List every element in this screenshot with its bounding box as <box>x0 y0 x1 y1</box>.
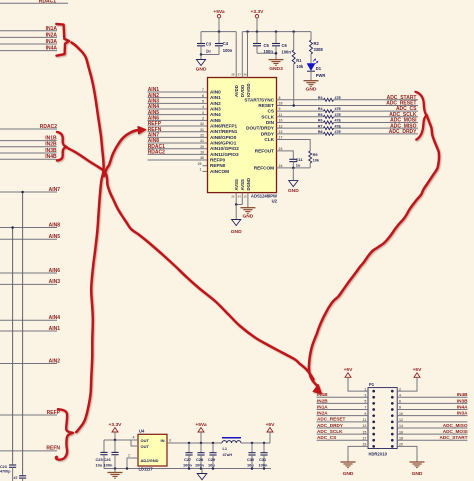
svg-text:3: 3 <box>202 111 204 115</box>
vertical wire bus 1 <box>22 192 24 474</box>
P1 pin dots <box>372 390 375 393</box>
wire P1 left row 5 <box>317 415 369 417</box>
wire L1 right rail <box>241 442 270 444</box>
svg-text:AIN5: AIN5 <box>210 118 221 123</box>
svg-text:GND3: GND3 <box>269 66 283 72</box>
annotation curve IN*A to REFP/REFN <box>72 43 104 433</box>
ground header left <box>341 461 356 463</box>
svg-text:IN1A: IN1A <box>46 26 58 32</box>
junction AIN7/vertical <box>21 191 24 194</box>
svg-text:24: 24 <box>238 195 242 199</box>
svg-text:C28: C28 <box>196 457 204 462</box>
inductor L1 <box>222 441 241 443</box>
svg-text:ADC_MOSI: ADC_MOSI <box>443 429 468 434</box>
annotation curve ADC brace to header <box>309 115 439 385</box>
svg-text:RESET: RESET <box>258 103 274 108</box>
svg-text:19: 19 <box>200 150 204 154</box>
wire IN3B <box>0 152 57 154</box>
svg-text:AIN8: AIN8 <box>49 222 61 228</box>
wire P1 right row 3 <box>397 402 467 404</box>
wire D1 cathode <box>310 71 312 80</box>
junction +3.3V/rail <box>114 439 117 442</box>
svg-text:GND: GND <box>306 87 317 93</box>
wire ADC_MISO right <box>334 127 419 129</box>
svg-text:DGND: DGND <box>246 178 251 191</box>
resistor R4 <box>324 110 334 113</box>
wire U2 left pin 2 <box>148 119 208 121</box>
svg-text:START/SYNC: START/SYNC <box>244 97 274 102</box>
svg-text:29: 29 <box>198 162 202 166</box>
svg-text:C27: C27 <box>184 457 191 462</box>
svg-text:5: 5 <box>202 99 204 103</box>
svg-text:RDAC2: RDAC2 <box>40 124 57 130</box>
svg-text:OUT: OUT <box>141 444 150 449</box>
wire REFCOM <box>277 167 311 169</box>
wire IN3A <box>0 43 57 45</box>
svg-text:AIN7: AIN7 <box>49 187 61 193</box>
wire ADC_SCLK right <box>334 116 419 118</box>
svg-text:LD1117: LD1117 <box>139 466 154 471</box>
svg-text:10k: 10k <box>313 158 320 163</box>
capacitor C31 <box>263 443 265 453</box>
wire DVDD <box>241 32 243 78</box>
wire IN rail <box>167 442 222 444</box>
svg-text:AIN2: AIN2 <box>210 101 221 106</box>
svg-text:GND: GND <box>231 229 242 235</box>
power port +5Va bottom <box>198 428 204 433</box>
wire RDAC1 (cropped at top edge) <box>0 2 68 4</box>
power port +5V bottom <box>267 428 273 433</box>
svg-text:AIN8/GPIO0: AIN8/GPIO0 <box>210 135 237 140</box>
svg-text:AIN5: AIN5 <box>49 234 61 240</box>
pin stub 29 <box>203 165 208 167</box>
wire C3-C4 bottom tie <box>201 54 219 56</box>
svg-text:AIN0: AIN0 <box>210 90 221 95</box>
svg-text:REFP: REFP <box>47 410 61 416</box>
svg-text:AIN1: AIN1 <box>210 95 221 100</box>
svg-text:IN4B: IN4B <box>457 392 468 397</box>
svg-text:4: 4 <box>133 436 135 440</box>
svg-text:1u: 1u <box>206 48 211 53</box>
svg-text:IN4A: IN4A <box>457 404 468 409</box>
svg-text:IN2A: IN2A <box>317 411 328 416</box>
svg-text:CLK: CLK <box>264 137 274 142</box>
svg-text:47uH: 47uH <box>223 452 233 457</box>
svg-text:10: 10 <box>279 119 283 123</box>
wire P1 left row 7 <box>317 427 369 429</box>
wire P1 right row 6 <box>397 421 467 423</box>
svg-text:+3.3V: +3.3V <box>251 9 265 15</box>
svg-text:23: 23 <box>279 147 283 151</box>
svg-text:DIN: DIN <box>266 120 275 125</box>
wire +3.3V stem <box>256 18 258 32</box>
svg-text:31: 31 <box>200 128 204 132</box>
wire AVDD <box>235 32 237 78</box>
wire ADC_DRDY left <box>277 133 324 135</box>
wire GND stem center <box>201 469 203 474</box>
svg-text:IN3A: IN3A <box>457 411 468 416</box>
junction C11/REFCOM <box>292 167 295 170</box>
svg-text:30: 30 <box>200 156 204 160</box>
power port +5V header right <box>414 373 420 378</box>
wire P1 left row 3 <box>317 402 369 404</box>
svg-text:IN3B: IN3B <box>45 148 57 154</box>
wire ADC_RESET <box>277 104 419 106</box>
wire AIN4 <box>0 319 57 321</box>
svg-text:AIN2: AIN2 <box>49 358 61 364</box>
resistor R1 <box>293 32 295 50</box>
svg-text:21: 21 <box>200 139 204 143</box>
wire ADC_START left <box>277 99 324 101</box>
svg-text:27: 27 <box>238 73 242 77</box>
pin stub 1 <box>203 170 208 172</box>
wire AIN6 <box>0 272 57 274</box>
resistor R6 <box>324 121 334 124</box>
svg-text:ADC_DRDY: ADC_DRDY <box>389 129 417 135</box>
annotation brace REFP-REFN <box>56 409 73 459</box>
wire IN4A <box>0 50 57 52</box>
resistor R3 <box>324 98 334 101</box>
svg-text:SCLK: SCLK <box>261 114 274 119</box>
junction AIN8/vertical <box>11 226 14 229</box>
svg-text:R8: R8 <box>318 130 323 134</box>
wire P1 right row 9 <box>397 439 467 441</box>
wire +3.3V stem bottom <box>114 432 116 440</box>
svg-text:AVSS: AVSS <box>234 179 239 191</box>
svg-text:100n: 100n <box>259 463 268 468</box>
svg-text:ADC_CS: ADC_CS <box>317 435 336 440</box>
svg-text:U4: U4 <box>139 429 145 434</box>
wire ADC_DRDY right <box>334 133 419 135</box>
junction rail/C5 <box>256 30 259 32</box>
annotation brace IN1A-IN4A <box>56 24 69 56</box>
svg-text:REFN: REFN <box>46 446 60 452</box>
capacitor C5 <box>256 32 258 44</box>
svg-text:REFOUT: REFOUT <box>255 148 274 153</box>
wire REFP <box>0 414 57 416</box>
ground header right <box>410 461 425 463</box>
junction C26/GND rail <box>114 467 117 470</box>
svg-text:6: 6 <box>202 94 204 98</box>
svg-text:ADC_MISO: ADC_MISO <box>443 423 468 428</box>
svg-text:1: 1 <box>200 167 202 171</box>
wire IN2A <box>0 36 57 38</box>
wire U2 left pin 30 <box>148 159 208 161</box>
capacitor C3 <box>200 32 202 44</box>
wire P1 left row 8 <box>317 433 369 435</box>
svg-text:IOVDD: IOVDD <box>246 83 251 97</box>
svg-text:R4: R4 <box>318 107 323 111</box>
svg-text:1u: 1u <box>296 163 301 168</box>
svg-text:+3.3V: +3.3V <box>109 422 123 428</box>
capacitor C27 <box>188 443 190 453</box>
junction ADJ/GND rail <box>126 467 129 470</box>
ground under AVSS <box>232 220 241 226</box>
svg-text:AIN7/REFN1: AIN7/REFN1 <box>210 129 238 134</box>
power port +5Va <box>217 15 220 18</box>
svg-text:1: 1 <box>128 454 130 458</box>
capacitor C25 <box>103 440 105 452</box>
LED D1 <box>307 64 315 71</box>
junction C27/rail <box>188 442 191 445</box>
ground under D1 <box>304 80 319 82</box>
svg-text:+5V: +5V <box>266 422 276 428</box>
svg-text:47E: 47E <box>335 130 342 134</box>
wire IN1B <box>0 140 57 142</box>
wire AIN3 <box>0 283 57 285</box>
wire IN1A <box>0 30 57 32</box>
svg-text:C6: C6 <box>282 43 288 48</box>
svg-text:DVDD: DVDD <box>240 85 245 97</box>
svg-text:AIN10/GPIO2: AIN10/GPIO2 <box>210 146 239 151</box>
svg-text:+5Va: +5Va <box>195 422 207 428</box>
junction rail/R1 <box>292 30 295 32</box>
svg-text:11: 11 <box>279 113 283 117</box>
capacitor C26 <box>114 440 116 452</box>
wire U2 left pin 3 <box>148 114 208 116</box>
svg-text:C23: C23 <box>0 465 7 469</box>
annotation brace ADC signals <box>416 92 427 140</box>
junction rail/IOVDD <box>246 30 249 32</box>
svg-text:ADC_DRDY: ADC_DRDY <box>317 423 344 428</box>
svg-text:IN3B: IN3B <box>457 398 468 403</box>
svg-text:HDR2X10: HDR2X10 <box>369 452 388 457</box>
wire +5V to pin1 <box>348 377 368 391</box>
wire U2 left pin 22 <box>148 136 208 138</box>
svg-text:AIN3: AIN3 <box>210 107 221 112</box>
regulator U4 body <box>138 434 167 466</box>
svg-text:IN2A: IN2A <box>46 32 58 38</box>
capacitor C24 (cropped corner) <box>22 474 24 476</box>
wire CLK <box>277 139 311 151</box>
svg-text:ADC_RESET: ADC_RESET <box>317 417 346 422</box>
svg-text:10u: 10u <box>208 463 215 468</box>
capacitor C4 <box>218 32 220 44</box>
svg-text:+5V: +5V <box>413 367 423 373</box>
svg-text:C3: C3 <box>206 41 212 46</box>
wire P1 right row 4 <box>397 409 467 411</box>
wire AIN1 <box>0 330 57 332</box>
wire IOVDD <box>247 32 249 78</box>
wire ADC_MOSI left <box>277 121 324 123</box>
svg-text:AIN9/GPIO1: AIN9/GPIO1 <box>210 141 237 146</box>
power port +5V header left <box>345 373 351 378</box>
annotation arrowhead at IC labels <box>138 127 146 134</box>
svg-text:100n: 100n <box>104 463 113 468</box>
svg-text:24: 24 <box>279 164 283 168</box>
junction AVSS <box>235 203 238 206</box>
junction +5Va/rail <box>200 442 203 445</box>
svg-text:10k: 10k <box>296 64 304 69</box>
svg-text:IN1B: IN1B <box>45 135 57 141</box>
wire IN4B <box>0 158 57 160</box>
svg-text:IN4A: IN4A <box>46 46 58 52</box>
wire AIN5 <box>0 238 57 240</box>
capacitor C28 <box>200 443 202 453</box>
svg-text:15: 15 <box>243 195 247 199</box>
wire +5Va stem bottom <box>200 432 202 443</box>
junction C3 bottom <box>200 53 203 56</box>
wire C26 gnd stem <box>114 469 116 473</box>
svg-text:AIN11/GPIO3: AIN11/GPIO3 <box>210 152 239 157</box>
svg-text:18: 18 <box>279 102 283 106</box>
capacitor C30 <box>251 443 253 453</box>
svg-text:AINCOM: AINCOM <box>210 169 229 174</box>
svg-text:4700p: 4700p <box>0 470 11 474</box>
wire U2 left pin 32 <box>148 125 208 127</box>
wire U2 left pin 4 <box>148 108 208 110</box>
svg-text:2: 2 <box>202 116 204 120</box>
svg-text:25: 25 <box>231 195 235 199</box>
svg-text:22: 22 <box>200 133 204 137</box>
svg-text:AIN4: AIN4 <box>49 315 61 321</box>
svg-text:R6: R6 <box>318 119 323 123</box>
resistor R2 <box>310 32 312 40</box>
svg-text:8: 8 <box>279 96 281 100</box>
svg-text:IN: IN <box>161 438 165 443</box>
svg-text:DRDY: DRDY <box>261 131 275 136</box>
svg-text:7: 7 <box>202 88 204 92</box>
svg-text:R7: R7 <box>318 124 323 128</box>
ground under DGND <box>240 207 255 209</box>
wire U4 OUT pin 4 <box>131 439 138 441</box>
wire REFCOM to GND <box>292 168 294 181</box>
power port +3.3V bottom <box>112 428 118 433</box>
svg-text:+5V: +5V <box>344 367 354 373</box>
svg-text:100n: 100n <box>195 463 204 468</box>
svg-text:IN2B: IN2B <box>317 398 328 403</box>
svg-text:REFP0: REFP0 <box>210 158 226 163</box>
junction C31/rail <box>263 442 266 445</box>
wire OUT rail <box>104 439 138 441</box>
wire U2 left pin 20 <box>148 148 208 150</box>
svg-text:4: 4 <box>202 105 204 109</box>
svg-text:AIN4: AIN4 <box>210 112 221 117</box>
svg-text:AVDD: AVDD <box>234 85 239 97</box>
svg-text:GND: GND <box>412 471 423 477</box>
svg-text:AVSS: AVSS <box>240 179 245 191</box>
svg-text:D1: D1 <box>316 66 322 71</box>
svg-text:100n: 100n <box>223 48 233 53</box>
svg-text:ADC_SCLK: ADC_SCLK <box>317 429 343 434</box>
svg-text:CS: CS <box>267 109 274 114</box>
svg-text:C4: C4 <box>223 41 229 46</box>
resistor R5 <box>324 115 334 118</box>
svg-text:+5Va: +5Va <box>213 9 225 15</box>
junction C6 bottom <box>275 52 278 55</box>
wire +3.3V rail <box>242 31 311 33</box>
annotation arrowhead at header <box>313 385 321 394</box>
wire U2 left pin 31 <box>148 131 208 133</box>
wire U2 left pin 19 <box>148 153 208 155</box>
wire AVSS 1 <box>235 193 237 205</box>
svg-text:AIN3: AIN3 <box>49 279 61 285</box>
wire U4 ADJ pin 1 <box>127 458 138 469</box>
wire U2 left pin 21 <box>148 142 208 144</box>
wire P1 right row 2 <box>397 396 467 398</box>
svg-text:100n: 100n <box>282 50 292 55</box>
wire P1 left row 9 <box>317 439 369 441</box>
wire U4 OUT pin 2 <box>131 440 138 446</box>
svg-text:C26: C26 <box>104 457 112 462</box>
op-amp U2 ADS1248 body <box>208 78 277 193</box>
svg-text:C30: C30 <box>247 457 254 462</box>
wire C6 to ground <box>275 53 277 59</box>
wire ADC_MISO left <box>277 127 324 129</box>
capacitor C23 (cropped corner) <box>12 462 14 465</box>
wire ADC_MOSI right <box>334 121 419 123</box>
junction caps/GND rail <box>188 467 191 470</box>
wire AIN8 <box>0 227 57 229</box>
wire ADC_SCLK left <box>277 116 324 118</box>
wire AVSS 2 <box>241 193 243 205</box>
svg-text:U2: U2 <box>272 199 278 204</box>
svg-text:GND: GND <box>288 188 299 194</box>
wire AVSS to GND <box>235 205 237 220</box>
svg-text:C29: C29 <box>208 457 216 462</box>
svg-text:47: 47 <box>14 476 18 480</box>
wire ADC_CS left <box>277 110 324 112</box>
capacitor C11 <box>289 158 297 160</box>
wire REFN <box>0 450 57 452</box>
svg-text:OUT: OUT <box>141 438 150 443</box>
annotation brace IN1B-IN4B <box>57 132 67 161</box>
svg-text:100n: 100n <box>183 463 192 468</box>
ground under C26 <box>108 472 123 474</box>
wire to GND <box>200 55 202 60</box>
svg-text:12: 12 <box>279 124 283 128</box>
svg-text:9: 9 <box>279 107 281 111</box>
wire P1 right row 5 <box>397 415 467 417</box>
junction +5Va/C4 <box>218 30 221 32</box>
svg-text:DOUT/DRDY: DOUT/DRDY <box>246 126 275 131</box>
wire C5-C6 tie <box>257 52 276 54</box>
wire AVSS tie <box>236 204 242 206</box>
svg-text:GND: GND <box>343 471 354 477</box>
resistor R7 <box>324 127 334 130</box>
svg-text:10u: 10u <box>96 463 103 468</box>
wire ADC_CS right <box>334 110 419 112</box>
svg-text:RDAC1: RDAC1 <box>39 0 56 5</box>
svg-text:R9: R9 <box>313 152 319 157</box>
wire ADC_START right <box>334 99 419 101</box>
annotation arrow knot to IC labels <box>104 130 140 176</box>
junction C29/rail <box>212 442 215 445</box>
svg-text:17: 17 <box>279 136 283 140</box>
svg-text:R3: R3 <box>318 96 323 100</box>
connector P1 body <box>368 388 397 449</box>
svg-text:330E: 330E <box>314 47 324 52</box>
svg-text:28: 28 <box>231 73 235 77</box>
wire +5Va rail <box>201 31 236 33</box>
wire GND rail bottom <box>104 468 271 470</box>
wire pin20 to GND <box>397 446 417 461</box>
capacitor C6 <box>275 32 277 44</box>
vertical wire bus 2 <box>12 228 14 463</box>
svg-text:C11: C11 <box>296 157 304 162</box>
svg-text:32: 32 <box>200 122 204 126</box>
svg-text:AIN1: AIN1 <box>49 326 61 332</box>
wire +5Va stem <box>218 18 220 32</box>
ground under REFCOM <box>289 181 298 187</box>
capacitor C29 <box>212 443 214 453</box>
wire P1 left row 6 <box>317 421 369 423</box>
wire U2 left pin 7 <box>148 91 208 93</box>
wire P1 left row 2 <box>317 396 369 398</box>
wire U2 left pin 5 <box>148 102 208 104</box>
svg-text:AIN6: AIN6 <box>49 268 61 274</box>
svg-text:IN3A: IN3A <box>46 39 58 45</box>
